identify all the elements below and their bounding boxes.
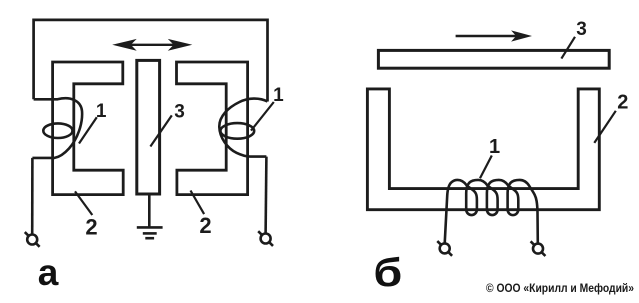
ground (below plate 3)	[137, 196, 163, 239]
svg-text:2: 2	[617, 92, 628, 114]
svg-text:© ООО «Кирилл и Мефодий»: © ООО «Кирилл и Мефодий»	[486, 283, 634, 295]
label 2 callout (right core)	[191, 191, 205, 215]
svg-text:б: б	[373, 251, 402, 295]
coil 1 (winding on U-core bottom bar)	[445, 180, 538, 244]
wire: outer connecting loop top	[34, 20, 268, 102]
core 2 (right C-shaped electromagnet core)	[177, 62, 248, 195]
svg-text:2: 2	[199, 213, 211, 238]
svg-text:1: 1	[96, 101, 107, 122]
wire: left lead down to terminal	[31, 158, 34, 235]
terminal (left, figure a)	[25, 232, 40, 247]
coil 1 (left winding)	[32, 98, 82, 158]
label 1 (left coil) with callout	[79, 117, 97, 143]
wire: right lead down to terminal	[264, 157, 267, 234]
terminal (right, figure b)	[531, 241, 546, 256]
label 3 callout (figure b)	[561, 37, 575, 59]
terminal (left, figure b)	[437, 241, 452, 256]
svg-text:1: 1	[273, 85, 284, 106]
svg-text:2: 2	[85, 214, 97, 239]
core 2 (left C-shaped electromagnet core)	[53, 62, 124, 195]
svg-text:3: 3	[174, 102, 185, 123]
label 2 callout (figure b)	[594, 111, 616, 143]
svg-text:а: а	[38, 252, 59, 293]
arrow (double-headed, motion of plate 3)	[112, 39, 192, 51]
arrow (motion of bar 3)	[456, 30, 532, 41]
coil 1 (right winding)	[219, 99, 267, 157]
core 2 (U-shaped core, figure b)	[367, 89, 599, 210]
terminal (right, figure a)	[258, 231, 273, 246]
label 1 (right coil) with callout	[251, 102, 274, 131]
svg-text:3: 3	[576, 19, 587, 40]
svg-text:1: 1	[489, 136, 500, 158]
label 3 callout (figure a)	[150, 115, 171, 146]
label 2 callout (left core)	[75, 191, 92, 215]
bar 3 (moving plate above magnet)	[378, 50, 609, 68]
label 1 callout (figure b)	[480, 156, 492, 179]
plate 3 (central armature plate)	[137, 60, 160, 194]
